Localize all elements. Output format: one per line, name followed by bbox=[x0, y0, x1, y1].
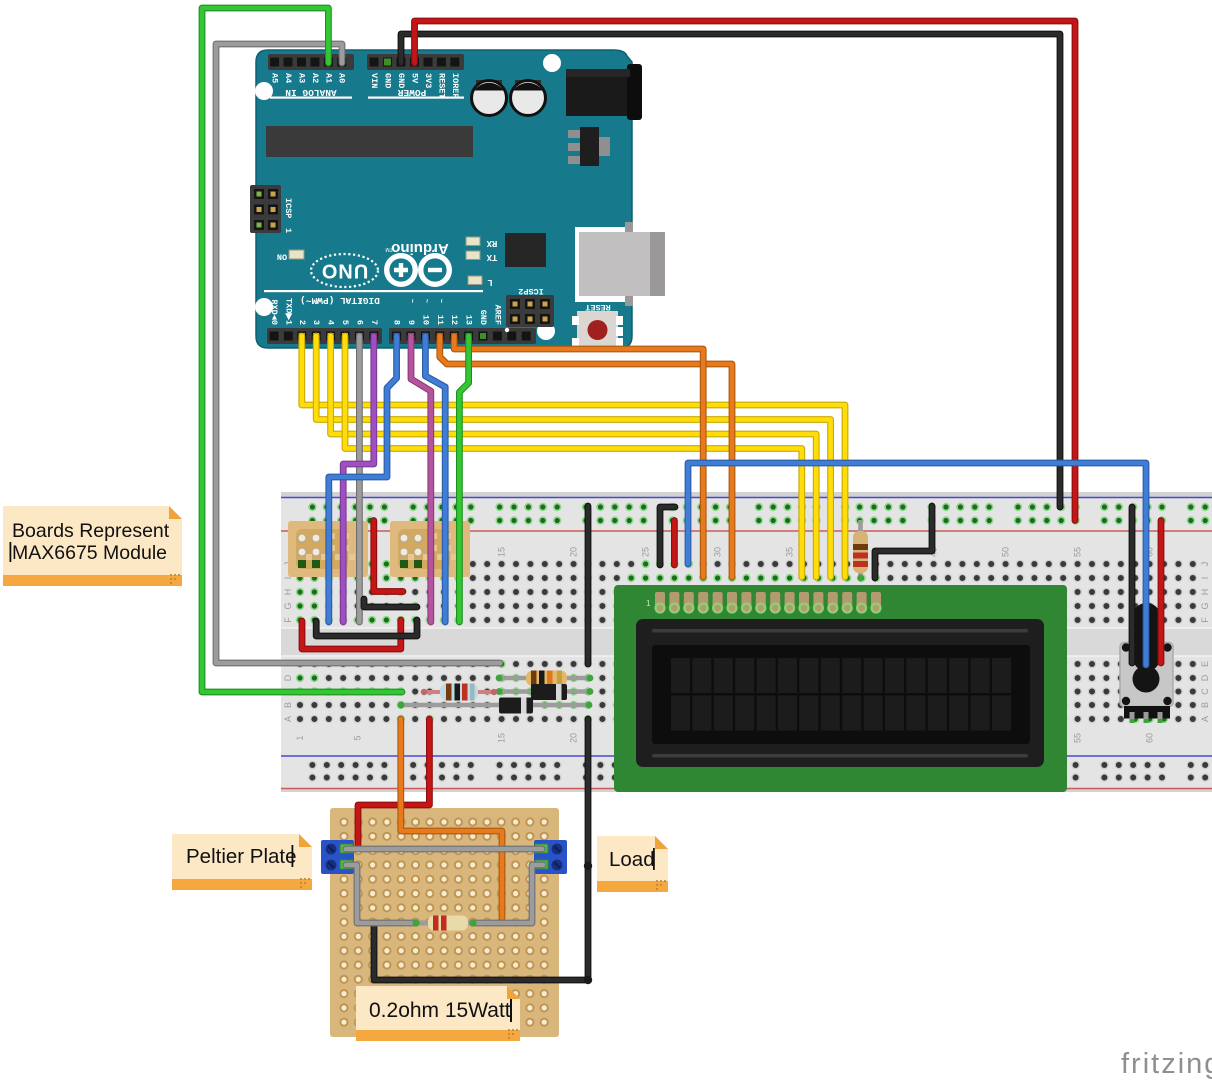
wire yellow D5 to LCD pin11 D4 bbox=[345, 336, 802, 577]
svg-text:IOREF: IOREF bbox=[450, 73, 460, 99]
Arduino digital header (pins 8-13,GND,AREF) bbox=[389, 328, 536, 344]
wire magenta D9 to breadboard F10 bbox=[411, 336, 431, 622]
wire yellow D3 to LCD pin13 D6 bbox=[316, 336, 830, 577]
wire blue D10 to breadboard F11 bbox=[425, 336, 445, 622]
wire black G5 to G9 bbox=[364, 599, 417, 607]
wire red top rail to potentiometer pin (E60) bbox=[1158, 521, 1165, 664]
UNO logo bbox=[311, 254, 378, 287]
MAX6675 module board (left) bbox=[288, 521, 368, 577]
svg-text:7: 7 bbox=[369, 320, 379, 325]
wire green A1 to breadboard C8 (wrap-around left) bbox=[202, 8, 402, 692]
capacitor C1 bbox=[472, 80, 507, 116]
wire red F1 to F8 (U jumper) bbox=[302, 620, 401, 649]
wire red 5V to top power rail bbox=[415, 21, 1076, 521]
svg-text:20: 20 bbox=[569, 733, 579, 743]
svg-text:UNO: UNO bbox=[321, 260, 368, 282]
svg-text:AREF: AREF bbox=[492, 305, 502, 325]
wire red breadboard A10 to Peltier terminal bbox=[358, 719, 429, 848]
svg-text:12: 12 bbox=[449, 315, 459, 325]
diode D1 (row C) bbox=[496, 684, 594, 700]
svg-text:ICSP2: ICSP2 bbox=[518, 286, 544, 296]
svg-text:8: 8 bbox=[392, 320, 402, 325]
wire blue D8 to breadboard F3 bbox=[329, 336, 397, 622]
wire blue LCD pin3 V0 to potentiometer bbox=[688, 463, 1146, 665]
svg-text:TX: TX bbox=[486, 252, 497, 262]
RESET button bbox=[572, 302, 623, 348]
digital pin labels bbox=[264, 290, 502, 325]
svg-text:MAX6675 Module: MAX6675 Module bbox=[12, 542, 167, 564]
svg-text:0.2ohm 15Watt: 0.2ohm 15Watt bbox=[369, 999, 511, 1022]
svg-text:Boards Represent: Boards Represent bbox=[12, 520, 170, 542]
wire gray terminal-to-terminal top link bbox=[346, 846, 542, 853]
breadboard holes bbox=[296, 503, 1210, 782]
wire purple D7 to breadboard F4 bbox=[343, 336, 374, 622]
svg-text:6: 6 bbox=[354, 320, 364, 325]
svg-text:TM: TM bbox=[385, 246, 392, 252]
svg-text:Arduino: Arduino bbox=[391, 240, 449, 257]
svg-text:E: E bbox=[1200, 661, 1210, 667]
svg-text:55: 55 bbox=[1073, 733, 1083, 743]
svg-text:A2: A2 bbox=[310, 73, 320, 83]
USB interface chip bbox=[505, 233, 546, 267]
svg-text:~: ~ bbox=[421, 299, 429, 303]
svg-text:ANALOG IN: ANALOG IN bbox=[285, 87, 337, 98]
svg-text:I: I bbox=[1200, 577, 1210, 580]
sticky note: Peltier Plate bbox=[172, 834, 312, 890]
diode D2 (row B) bbox=[398, 698, 593, 714]
svg-text:ON: ON bbox=[277, 252, 287, 262]
wire black top rail to LCD pin16 K bbox=[875, 506, 932, 578]
svg-text:fritzing: fritzing bbox=[1121, 1048, 1212, 1080]
svg-text:A: A bbox=[283, 716, 293, 722]
svg-text:G: G bbox=[283, 602, 293, 609]
resistor backlight (top rail to LCD pin15) bbox=[853, 520, 868, 581]
wire orange D11 to LCD pin6 E bbox=[440, 336, 732, 577]
svg-text:30: 30 bbox=[713, 547, 723, 557]
svg-text:A4: A4 bbox=[283, 73, 293, 83]
svg-text:GND: GND bbox=[383, 73, 393, 88]
svg-text:H: H bbox=[283, 589, 293, 596]
svg-text:15: 15 bbox=[497, 733, 507, 743]
wire black top rail col21 to breadboard E21 bbox=[585, 506, 592, 664]
svg-text:A5: A5 bbox=[270, 73, 280, 83]
voltage regulator bbox=[568, 127, 610, 166]
svg-text:~: ~ bbox=[436, 299, 444, 303]
wire gray right terminal to resistor bbox=[475, 865, 543, 923]
svg-text:F: F bbox=[1200, 617, 1210, 623]
wire orange breadboard A8 to perfboard resistor bbox=[401, 719, 502, 918]
svg-text:~: ~ bbox=[407, 299, 415, 303]
wire gray left terminal to resistor bbox=[346, 865, 414, 923]
Arduino top pin labels bbox=[270, 73, 460, 99]
Arduino digital header (pins 0-7) bbox=[267, 328, 382, 344]
svg-text:D: D bbox=[283, 674, 293, 681]
svg-text:Peltier Plate: Peltier Plate bbox=[186, 845, 297, 868]
svg-text:H: H bbox=[1200, 589, 1210, 596]
Arduino UNO board (rotated 180 deg) bbox=[256, 50, 632, 348]
wire black breadboard A21 down to perfboard (Load negative) bbox=[374, 719, 588, 980]
wire black top rail to LCD pin1 VSS bbox=[660, 507, 675, 565]
svg-text:35: 35 bbox=[785, 547, 795, 557]
wire red top rail to H8 bbox=[374, 521, 403, 592]
ON LED and label bbox=[277, 250, 304, 262]
svg-text:J: J bbox=[1200, 562, 1210, 567]
wire gray D6 to breadboard F5 bbox=[356, 336, 363, 622]
terminal block right (Load) bbox=[534, 840, 567, 874]
svg-text:11: 11 bbox=[435, 315, 445, 325]
wire gray A0 to breadboard E15 (wrap-around left) bbox=[216, 44, 500, 663]
svg-text:5: 5 bbox=[353, 735, 363, 740]
junction node on black load wire bbox=[584, 862, 592, 870]
Arduino IC socket bar bbox=[266, 126, 473, 157]
wire yellow D2 to LCD pin14 D7 bbox=[302, 336, 845, 577]
svg-text:5: 5 bbox=[340, 320, 350, 325]
svg-text:RESET: RESET bbox=[585, 302, 611, 312]
svg-text:A1: A1 bbox=[323, 73, 333, 83]
svg-text:15: 15 bbox=[497, 547, 507, 557]
ICSP2 header bbox=[506, 286, 554, 327]
wire green D13 to breadboard F12 bbox=[459, 336, 468, 622]
terminal block left (Peltier Plate) bbox=[321, 840, 354, 874]
wire black F2 to F9 (U jumper) bbox=[316, 620, 417, 636]
breadboard bbox=[281, 492, 1212, 792]
svg-text:A3: A3 bbox=[297, 73, 307, 83]
sticky note: Load bbox=[597, 836, 668, 892]
svg-text:C: C bbox=[1200, 688, 1210, 695]
resistor 0.2ohm 15Watt on perfboard bbox=[412, 916, 476, 931]
Arduino mounting holes bbox=[255, 54, 561, 340]
Arduino analog header A5-A0 bbox=[268, 54, 354, 70]
potentiometer (LCD contrast trimmer) bbox=[1120, 603, 1173, 723]
svg-text:VIN: VIN bbox=[369, 73, 379, 88]
svg-text:DIGITAL (PWM~): DIGITAL (PWM~) bbox=[300, 295, 380, 306]
svg-text:A0: A0 bbox=[337, 73, 347, 83]
svg-text:1: 1 bbox=[283, 228, 293, 233]
LCD 16x2 display module bbox=[614, 585, 1067, 792]
ANALOG IN / POWER silkscreen bbox=[270, 87, 464, 99]
svg-text:4: 4 bbox=[326, 320, 336, 325]
perfboard (0.2ohm 15Watt load board) bbox=[330, 808, 559, 1037]
svg-text:3V3: 3V3 bbox=[423, 73, 433, 88]
svg-text:10: 10 bbox=[420, 315, 430, 325]
ICSP1 header bbox=[250, 185, 293, 233]
svg-text:A: A bbox=[1200, 716, 1210, 722]
svg-text:I: I bbox=[283, 577, 293, 580]
resistor (blue body, row C 10-14) bbox=[421, 684, 497, 701]
wire black GND to top power rail bbox=[401, 34, 1060, 507]
svg-text:1: 1 bbox=[646, 599, 651, 608]
svg-text:55: 55 bbox=[1073, 547, 1083, 557]
wire yellow D4 to LCD pin12 D5 bbox=[331, 336, 817, 577]
barrel jack power connector bbox=[566, 64, 642, 120]
svg-text:RXD◄0: RXD◄0 bbox=[269, 299, 279, 325]
svg-text:1: 1 bbox=[295, 735, 305, 740]
USB connector bbox=[575, 222, 670, 306]
svg-text:Load: Load bbox=[609, 848, 655, 871]
sticky note: 0.2ohm 15Watt bbox=[356, 986, 520, 1041]
wire black top rail to potentiometer pin (E58) bbox=[1129, 507, 1136, 663]
breadboard row letters and column numbers bbox=[283, 547, 1210, 743]
svg-text:L: L bbox=[487, 277, 492, 287]
svg-text:TXD▶1: TXD▶1 bbox=[283, 298, 293, 325]
svg-text:POWER: POWER bbox=[397, 87, 426, 98]
svg-text:25: 25 bbox=[641, 547, 651, 557]
svg-text:GND: GND bbox=[478, 310, 488, 325]
svg-text:3: 3 bbox=[311, 320, 321, 325]
svg-text:60: 60 bbox=[1145, 733, 1155, 743]
svg-text:G: G bbox=[1200, 602, 1210, 609]
svg-text:RESET: RESET bbox=[436, 73, 446, 99]
svg-text:D: D bbox=[1200, 674, 1210, 681]
wire red top rail to LCD pin2 VDD bbox=[671, 521, 678, 566]
wire orange D12 to LCD pin4 RS bbox=[454, 336, 703, 577]
svg-text:B: B bbox=[283, 702, 293, 708]
Arduino power header bbox=[367, 54, 464, 70]
svg-text:20: 20 bbox=[569, 547, 579, 557]
svg-text:9: 9 bbox=[406, 320, 416, 325]
svg-text:5V: 5V bbox=[410, 73, 420, 84]
svg-text:2: 2 bbox=[297, 320, 307, 325]
svg-text:B: B bbox=[1200, 702, 1210, 708]
RX TX L LEDs and labels bbox=[466, 237, 497, 287]
svg-text:GND: GND bbox=[396, 73, 406, 88]
sticky note: Boards Represent MAX6675 Module bbox=[3, 506, 182, 586]
MAX6675 module board (right) bbox=[390, 521, 470, 577]
svg-text:RX: RX bbox=[486, 238, 497, 248]
Arduino infinity logo bbox=[385, 240, 449, 284]
capacitor C2 bbox=[511, 80, 546, 116]
svg-text:13: 13 bbox=[464, 315, 474, 325]
svg-text:ICSP: ICSP bbox=[283, 198, 293, 218]
resistor R (row D, 14-21) bbox=[496, 671, 594, 687]
svg-text:F: F bbox=[283, 617, 293, 623]
svg-text:50: 50 bbox=[1001, 547, 1011, 557]
